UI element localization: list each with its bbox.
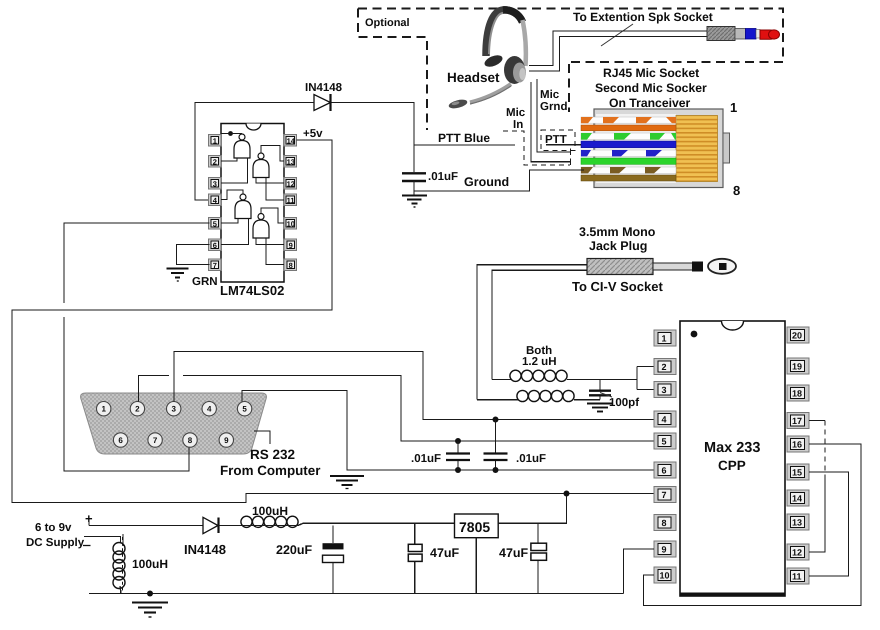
U1 right pads pins 14-8: [284, 135, 297, 271]
3.5mm stereo plug to extension socket: [707, 27, 780, 41]
wire DB9 pin8 riser: [188, 448, 190, 472]
RJ45 wire 2 orange: [581, 125, 676, 131]
svg-text:Max 233: Max 233: [704, 440, 760, 456]
svg-text:Jack Plug: Jack Plug: [589, 239, 647, 253]
capacitor C6 47uF: [408, 524, 422, 594]
junction dot 7805 output: [564, 491, 570, 497]
U1 pin1 index dot: [228, 131, 233, 136]
svg-text:RS 232: RS 232: [250, 447, 295, 462]
svg-text:CPP: CPP: [718, 458, 746, 473]
svg-text:Headset: Headset: [447, 70, 500, 85]
svg-text:6: 6: [213, 241, 217, 250]
svg-text:PTT Blue: PTT Blue: [438, 131, 490, 145]
svg-text:9: 9: [662, 545, 667, 555]
wire U2 pin17 to pin12: [809, 421, 825, 553]
inductor L1 1.2uH (top): [492, 370, 637, 381]
wire U2 pin9 to ground rail: [624, 549, 655, 594]
capacitor C1 .01uF: [402, 173, 426, 195]
svg-text:1.2 uH: 1.2 uH: [522, 356, 557, 368]
capacitor C3 .01uF: [484, 420, 508, 471]
svg-text:5: 5: [242, 405, 247, 414]
svg-text:12: 12: [792, 548, 802, 558]
RJ45 dashed box left edge: [568, 64, 570, 112]
capacitor C2 .01uF: [446, 441, 470, 470]
svg-text:2: 2: [213, 157, 217, 166]
ground rail: [89, 593, 624, 595]
svg-text:8: 8: [289, 261, 293, 270]
U1 gate D nor: [253, 214, 269, 239]
svg-text:7805: 7805: [459, 519, 490, 535]
wire mic grnd to RJ45: [537, 79, 571, 155]
svg-text:Mic: Mic: [506, 107, 526, 119]
svg-text:100uH: 100uH: [252, 504, 288, 518]
svg-text:8: 8: [662, 518, 667, 528]
U2 left pads pins 1-10: [654, 330, 676, 583]
wire jack tip to L2: [477, 265, 587, 400]
svg-text:5: 5: [662, 437, 667, 447]
U1 gate B nor: [253, 153, 269, 178]
diode D1 IN4148: [314, 94, 331, 111]
RJ45 wire 6 green: [581, 158, 676, 164]
svg-text:16: 16: [792, 440, 802, 450]
ground below C1: [402, 196, 427, 208]
RJ45 connector body: [594, 109, 730, 188]
wire U2 pin16 to pin10 loop: [644, 444, 862, 606]
svg-text:6: 6: [662, 466, 667, 476]
wire jack sleeve to L1: [492, 270, 587, 379]
svg-text:Second Mic Socker: Second Mic Socker: [595, 81, 707, 95]
regulator U3 7805: [455, 514, 499, 538]
wire diode anode to U1 pin4: [195, 103, 314, 201]
svg-text:17: 17: [792, 416, 802, 426]
inductor L4 100uH vertical: [113, 534, 125, 594]
svg-text:2: 2: [662, 362, 667, 372]
wire 7805 ground pin: [475, 538, 477, 594]
svg-text:100uH: 100uH: [132, 557, 168, 571]
U1 gate A nor: [234, 134, 250, 158]
svg-text:2: 2: [135, 405, 140, 414]
U1 left pads pins 1-7: [209, 135, 222, 271]
optional enclosure dashed box: [358, 9, 783, 131]
wire PTT Blue line: [414, 144, 515, 146]
wire D2 to L3: [219, 525, 243, 527]
callout line to spk cable: [601, 24, 633, 46]
U1 gate C nor: [235, 194, 251, 219]
svg-text:1: 1: [662, 334, 667, 344]
svg-text:220uF: 220uF: [276, 543, 312, 557]
svg-text:7: 7: [662, 490, 667, 500]
diode D2 IN4148: [203, 517, 219, 533]
svg-text:19: 19: [792, 362, 802, 372]
U1 gate D wires: [256, 208, 284, 265]
wire ptt box to blue wire: [546, 144, 581, 146]
IC U2 Max233 body: [680, 321, 785, 596]
U1 gate C wires: [221, 190, 249, 245]
svg-text:4: 4: [207, 405, 212, 414]
wire DB9 pin2 to U2 pin5 (hop over pin3 riser): [139, 376, 656, 442]
U2 pin1 index dot: [691, 331, 698, 338]
RJ45 wire 3 white/green: [581, 133, 676, 140]
wire supply plus to diode D2: [89, 520, 203, 526]
mono jack plug J1: [587, 259, 736, 275]
wire DB9 pin5 to signal ground and U2 pin6: [242, 391, 655, 471]
svg-text:DC Supply: DC Supply: [26, 537, 85, 549]
svg-text:6: 6: [118, 436, 123, 445]
capacitor C4 100pf: [589, 380, 611, 400]
label 100pf with callout: [600, 393, 612, 398]
svg-text:12: 12: [287, 179, 295, 188]
svg-text:3.5mm Mono: 3.5mm Mono: [579, 225, 656, 239]
svg-text:1: 1: [101, 405, 106, 414]
svg-text:8: 8: [188, 436, 193, 445]
svg-text:13: 13: [792, 518, 802, 528]
ground (supply): [132, 603, 168, 618]
svg-text:GRN: GRN: [192, 276, 218, 288]
wire U1 pin5 to DB9 pin8 (hop over +5v rail): [64, 223, 210, 471]
RJ45 wire 1 white/orange: [581, 117, 676, 123]
svg-text:7: 7: [213, 261, 217, 270]
svg-text:.01uF: .01uF: [516, 453, 546, 465]
svg-text:7: 7: [153, 436, 158, 445]
svg-text:On Tranceiver: On Tranceiver: [609, 96, 691, 110]
junction dot C2 top: [455, 438, 461, 444]
ground GRN: [167, 269, 189, 282]
svg-text:8: 8: [733, 183, 740, 198]
svg-text:Optional: Optional: [365, 17, 410, 29]
headset: [448, 10, 526, 110]
junction dot supply ground: [147, 591, 153, 597]
svg-text:IN4148: IN4148: [305, 82, 343, 94]
wire U1 pin14 +5v rail to 7805 output and U2 pin7: [12, 140, 655, 503]
DB9 connector P1: [81, 393, 267, 454]
svg-text:Mic: Mic: [540, 89, 560, 101]
RJ45 wire 5 white/blue: [581, 150, 676, 156]
svg-text:.01uF: .01uF: [428, 171, 458, 183]
svg-text:Grnd: Grnd: [540, 101, 567, 113]
wire U1 pins 6,7 to GRN ground: [177, 245, 210, 265]
wire DB9 pin3 to U2 pin4: [174, 352, 655, 420]
svg-text:3: 3: [213, 179, 217, 188]
svg-text:To Extention Spk Socket: To Extention Spk Socket: [573, 10, 713, 24]
wire 7805 output to +5 node: [498, 494, 566, 524]
svg-text:1: 1: [213, 136, 217, 145]
svg-text:15: 15: [792, 468, 802, 478]
op IC U1 LM74LS02 body: [221, 124, 284, 283]
RJ45 wire 4 blue: [581, 141, 676, 148]
svg-text:6 to 9v: 6 to 9v: [35, 522, 72, 534]
RJ45 wire 8 brown: [581, 175, 676, 181]
svg-text:5: 5: [213, 219, 217, 228]
svg-text:10: 10: [287, 219, 295, 228]
svg-text:9: 9: [224, 436, 229, 445]
ground (signal): [330, 476, 364, 489]
U2 right pads pins 20-11: [787, 327, 809, 584]
svg-text:9: 9: [289, 241, 293, 250]
svg-text:.01uF: .01uF: [411, 453, 441, 465]
svg-text:47uF: 47uF: [430, 546, 460, 560]
svg-text:To CI-V Socket: To CI-V Socket: [572, 279, 663, 294]
svg-text:IN4148: IN4148: [184, 542, 226, 557]
callout RS232 to connector: [254, 431, 270, 444]
svg-text:47uF: 47uF: [499, 546, 529, 560]
svg-text:+5v: +5v: [303, 128, 323, 140]
svg-text:11: 11: [287, 196, 295, 205]
svg-text:20: 20: [792, 331, 802, 341]
inductor L2 1.2uH (bottom): [477, 390, 600, 401]
wire diode D1 cathode to PTT node: [331, 103, 415, 173]
svg-text:10: 10: [660, 571, 670, 581]
svg-text:4: 4: [662, 415, 667, 425]
PTT dashed box: [541, 130, 575, 151]
svg-text:1: 1: [730, 100, 737, 115]
svg-text:RJ45 Mic Socket: RJ45 Mic Socket: [603, 66, 699, 80]
ground below C4: [587, 404, 613, 412]
wire L1 to U2 pins 2,3: [637, 367, 655, 390]
U1 gate A wires: [221, 134, 248, 184]
junction dot C3 top: [493, 417, 499, 423]
svg-text:LM74LS02: LM74LS02: [220, 283, 284, 298]
speaker cable wires: [529, 31, 707, 71]
wire U2 pin15 to pin11: [809, 472, 849, 576]
RJ45 wire 7 white/brown: [581, 167, 676, 173]
inductor L3 100uH: [241, 516, 455, 527]
wire minus terminal to L4: [84, 537, 121, 544]
svg-text:11: 11: [792, 572, 802, 582]
wire Ground line to RJ45: [414, 170, 584, 191]
svg-text:14: 14: [287, 136, 296, 145]
svg-text:From Computer: From Computer: [220, 463, 321, 478]
svg-text:3: 3: [662, 385, 667, 395]
capacitor C7 47uF: [531, 523, 547, 594]
junction dots on ground line: [455, 467, 461, 473]
svg-text:13: 13: [287, 157, 295, 166]
dashed mic-in link: [503, 131, 570, 165]
svg-text:14: 14: [792, 494, 802, 504]
svg-text:18: 18: [792, 389, 802, 399]
svg-text:3: 3: [171, 405, 176, 414]
U1 gate B wires: [256, 146, 284, 201]
svg-text:Ground: Ground: [464, 175, 509, 189]
wire mic in to RJ45: [531, 82, 571, 165]
svg-text:100pf: 100pf: [609, 397, 639, 409]
capacitor C5 220uF: [323, 526, 344, 594]
svg-text:In: In: [513, 119, 523, 131]
